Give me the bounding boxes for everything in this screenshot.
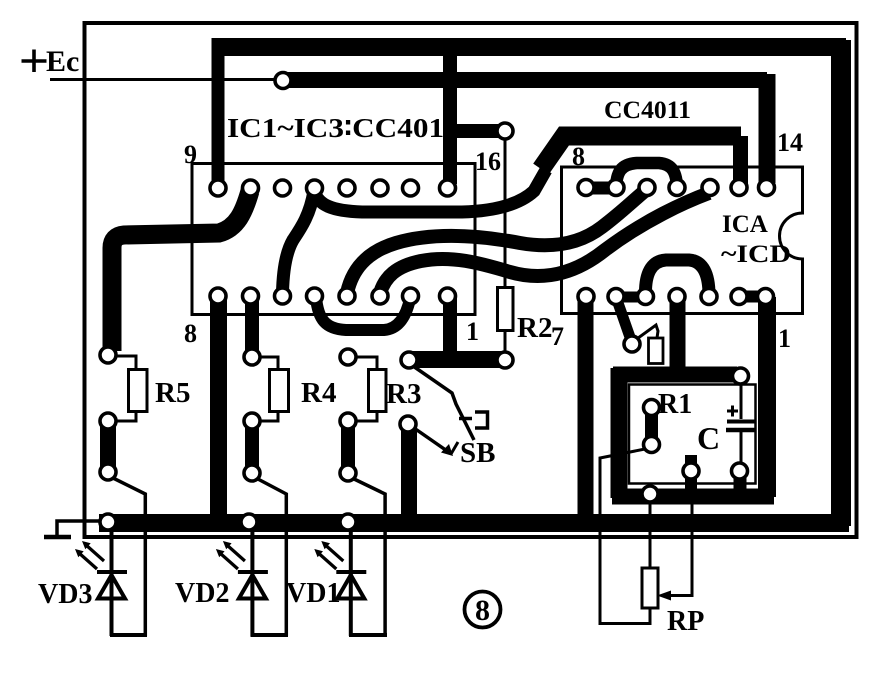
wire rail1 left drop to IC1 pin9 — [212, 52, 225, 188]
switch SB actuator bracket — [459, 417, 472, 421]
wire R4 top lead — [256, 357, 278, 369]
pad R4 column — [244, 349, 260, 365]
wire square right bar from IC2 pin1 — [758, 297, 776, 497]
node +Ec label — [22, 59, 47, 63]
pad Ec — [275, 73, 291, 89]
svg-text:VD1: VD1 — [286, 578, 340, 609]
pad R1 top — [644, 400, 660, 416]
resistor R2 body — [498, 288, 514, 331]
wire stub IC1 bottom2 to R4 pad — [245, 296, 259, 355]
node inner box around R1 C — [629, 385, 756, 484]
wire VD1 cathode line — [349, 525, 353, 636]
wire diag R3 col to VD1 loop — [352, 478, 385, 636]
wire rail1 right column — [831, 40, 851, 526]
svg-text:C: C — [697, 420, 720, 456]
wire left route IC1 top2 to R5 pad — [112, 191, 250, 351]
wire drop IC1 bottom8 to R2 bar — [443, 298, 457, 355]
svg-text:1: 1 — [778, 324, 791, 353]
wire +Ec feed — [50, 78, 280, 81]
wire R2 bottom lead — [504, 331, 507, 356]
wire band B IC1 bottom5 to IC2 top3 — [347, 190, 646, 293]
wire column 4 to bus — [401, 426, 417, 524]
wire long column from IC1 bottom1 to bus — [210, 296, 227, 524]
wire bottom-left end dash — [44, 535, 71, 540]
svg-text:VD2: VD2 — [175, 578, 229, 609]
wire R4 bottom lead — [256, 412, 278, 421]
wire rail1 top horizontal — [212, 38, 847, 56]
wire IC2 link bottom pads2-3 — [616, 292, 645, 303]
wire stub above pad near C — [685, 455, 697, 490]
wire R3 bottom lead — [352, 412, 377, 421]
svg-text:R2: R2 — [517, 312, 552, 344]
wire R5 top lead — [112, 356, 136, 369]
capacitor C polarity plus — [727, 410, 738, 413]
wire IC2 top hump pads2-4 — [616, 163, 677, 190]
figure number circled 8 — [465, 592, 501, 628]
wire stub IC2 bottom4 to square — [670, 297, 686, 370]
pad R1 bottom — [644, 437, 660, 453]
svg-text:16: 16 — [475, 147, 501, 176]
wire rail2 horizontal from Ec pad — [285, 72, 767, 88]
IC2 outline with notch — [562, 167, 803, 314]
svg-text:RP: RP — [667, 606, 704, 637]
pads group — [100, 73, 775, 531]
switch SB contact wire upper — [413, 366, 474, 440]
pad column4 — [400, 416, 416, 432]
wire IC2 link top pads1-2 — [586, 182, 616, 195]
wire VD3 cathode line — [110, 525, 114, 636]
pad wiper top — [683, 463, 699, 479]
wire capacitor bottom lead — [740, 431, 743, 468]
svg-text:8: 8 — [184, 319, 197, 348]
svg-text:7: 7 — [551, 322, 564, 351]
wire square top bar — [613, 367, 737, 383]
wire branch to mid pad — [444, 124, 501, 138]
svg-text:Ec: Ec — [46, 45, 79, 78]
wire R3 top lead — [352, 357, 377, 369]
wire bottom bus — [99, 514, 849, 532]
svg-text:CC4011: CC4011 — [604, 97, 691, 124]
wire hook to R1 body — [634, 325, 658, 341]
wire CC4011 top bar — [541, 136, 741, 169]
pad mid 16 branch — [497, 123, 513, 139]
wire diag R4 col to VD2 loop — [256, 478, 286, 636]
svg-text:~ICD: ~ICD — [721, 241, 791, 268]
wire stub R3 column — [341, 423, 355, 471]
pad capacitor top — [733, 368, 749, 384]
wire bottom-left hook — [57, 521, 100, 535]
wire RP wiper — [664, 474, 692, 596]
wire RP top lead — [649, 497, 652, 567]
pad R3 column — [340, 349, 356, 365]
svg-text:1: 1 — [466, 317, 479, 346]
wire stub below C pad — [734, 474, 747, 492]
wire diag R5 col to VD3 loop — [113, 478, 145, 636]
diode VD3 — [75, 541, 127, 599]
svg-text:8: 8 — [475, 594, 490, 627]
IC1 outline — [192, 164, 475, 315]
wire diagonal from IC2 bottom2 — [617, 300, 632, 343]
wire VD1 loop bottom — [349, 633, 387, 637]
pad RP top on bar — [642, 486, 658, 502]
svg-text:SB: SB — [460, 437, 495, 469]
wire R2 bar — [412, 351, 503, 368]
wire CC4011 bar right drop — [733, 136, 748, 184]
wire square bottom bar — [612, 489, 774, 505]
diode VD1 — [314, 541, 366, 599]
resistor R4 body — [270, 370, 289, 412]
pad R5 column — [100, 347, 116, 363]
wire stub R5 column — [100, 423, 116, 470]
pad IC2 bottom row — [578, 289, 594, 305]
wire IC2 bottom hump pads3-5 — [645, 260, 709, 295]
wire capacitor top lead — [740, 380, 743, 419]
wire R1 thick link — [645, 408, 658, 444]
pad IC1 bottom row — [210, 288, 226, 304]
wire VD2 loop bottom — [251, 633, 289, 637]
wire square left bar — [611, 368, 628, 498]
wire VD2 cathode line — [250, 525, 254, 636]
wire rail2 drop to pin14 — [759, 74, 776, 183]
wire stub R4 column — [245, 423, 259, 471]
svg-text:VD3: VD3 — [38, 579, 92, 610]
svg-text:IC1~IC3∶CC4011: IC1~IC3∶CC4011 — [227, 113, 458, 143]
diode VD2 — [216, 541, 268, 599]
wire IC2 stub bottom1 to bus — [578, 297, 594, 524]
resistor R3 body — [369, 370, 387, 412]
wire VD3 loop bottom — [110, 633, 147, 637]
potentiometer RP body — [642, 568, 658, 608]
resistor R1 body — [649, 338, 664, 364]
board outline — [85, 23, 857, 537]
pad R2 bar ends — [401, 352, 417, 368]
wire curve A from IC1 pin top4 to bar — [314, 170, 546, 212]
wire RP bottom lead loop — [600, 449, 650, 624]
svg-text:R4: R4 — [301, 377, 336, 409]
pad capacitor bottom — [732, 463, 748, 479]
wire S-curve IC1 top4 to bottom3 — [283, 191, 315, 293]
wire drop to IC1 pin16 — [443, 50, 457, 184]
svg-text:R3: R3 — [386, 378, 421, 410]
pad near R1 hook — [624, 336, 640, 352]
capacitor C plates — [727, 420, 756, 424]
wire band C IC1 bottom6 to IC2 top5 — [380, 193, 709, 293]
svg-text:8: 8 — [572, 142, 585, 171]
svg-text:9: 9 — [184, 140, 197, 169]
svg-text:14: 14 — [777, 128, 803, 157]
wire R2 top lead from mid pad — [504, 134, 507, 287]
wire hump under IC1 pads4-7 — [316, 297, 410, 330]
svg-text:R1: R1 — [658, 389, 692, 420]
svg-text:ICA: ICA — [722, 211, 768, 238]
resistor R5 body — [129, 370, 148, 412]
pad IC2 top row — [578, 180, 594, 196]
switch SB contact wire lower with arrow — [414, 428, 450, 453]
svg-text:R5: R5 — [155, 377, 190, 409]
wire IC2 link bottom pads6-7 — [739, 291, 766, 303]
pad IC1 top row — [210, 180, 226, 196]
wire R5 bottom lead — [114, 412, 136, 421]
